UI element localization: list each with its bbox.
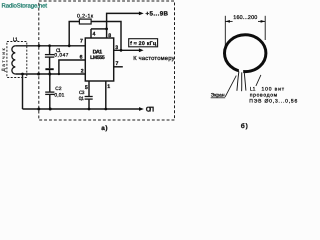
svg-text:С2: С2	[55, 86, 62, 92]
capacitor C2	[49, 74, 51, 92]
svg-text:ПЭВ Ø0,3...0,56: ПЭВ Ø0,3...0,56	[249, 99, 297, 105]
svg-text:8: 8	[108, 33, 111, 39]
coil wire ends	[237, 72, 239, 91]
lower plate bar	[45, 68, 53, 70]
svg-text:RadioStorage.net: RadioStorage.net	[2, 2, 48, 9]
pin 4 lead	[90, 29, 92, 38]
arrow to OP	[139, 107, 144, 111]
svg-text:f ≈ 20 кГц: f ≈ 20 кГц	[130, 41, 157, 47]
capacitor C3	[85, 96, 93, 98]
IC DA1 box	[85, 38, 113, 81]
svg-text:L1: L1	[250, 87, 256, 93]
dimension ticks	[224, 16, 226, 47]
svg-text:0,1: 0,1	[79, 96, 85, 102]
svg-text:7: 7	[116, 61, 119, 67]
svg-text:6: 6	[80, 54, 83, 60]
svg-text:5: 5	[85, 85, 88, 91]
frequency box	[129, 39, 158, 47]
pin 8 lead	[106, 29, 108, 38]
leader to screen	[225, 76, 236, 97]
svg-text:100 вит: 100 вит	[262, 87, 285, 93]
svg-text:LM555: LM555	[90, 55, 105, 61]
svg-text:2: 2	[81, 69, 84, 75]
junction dots	[38, 44, 41, 47]
enclosure dashed border (screen box of device a)	[39, 1, 175, 120]
svg-text:+5...9В: +5...9В	[146, 11, 169, 18]
pin 7 stub right	[114, 66, 123, 68]
sensor dashed box	[7, 42, 27, 78]
ground rail	[23, 108, 140, 110]
notch at ring bottom	[239, 69, 243, 76]
svg-text:7: 7	[80, 39, 83, 45]
svg-text:С3: С3	[79, 90, 85, 96]
svg-text:б): б)	[241, 123, 248, 130]
wire pins 4-8	[91, 28, 107, 30]
wire coil top to pin 7	[15, 45, 85, 47]
leader to L1 note	[256, 75, 261, 86]
svg-text:0,01: 0,01	[54, 93, 64, 99]
svg-text:3: 3	[115, 45, 118, 51]
resistor R1 right lead to pin 3	[91, 22, 121, 51]
pin 1 lead	[105, 81, 107, 109]
svg-text:К частотомеру: К частотомеру	[133, 56, 174, 62]
pin 3 output wire	[114, 49, 140, 51]
+V supply wire	[107, 13, 140, 29]
svg-text:4: 4	[93, 31, 96, 37]
resistor R1 leads	[69, 22, 79, 46]
inductor L1 coil	[12, 46, 15, 74]
svg-text:0,047: 0,047	[54, 53, 68, 59]
search coil ring	[225, 35, 266, 72]
svg-text:0,2-1к: 0,2-1к	[77, 13, 94, 19]
svg-text:160...200: 160...200	[233, 15, 257, 21]
svg-text:а): а)	[101, 125, 107, 132]
svg-text:L1: L1	[13, 37, 18, 43]
dimension arrows	[225, 20, 232, 22]
wire tie pins 6-2	[59, 60, 85, 74]
resistor R1 body	[79, 19, 91, 24]
svg-text:1: 1	[107, 84, 110, 90]
capacitor C1	[49, 46, 51, 54]
arrow to frequency meter	[139, 48, 144, 52]
wire coil bottom to pin 2	[15, 73, 85, 75]
arrow +V	[139, 12, 144, 16]
svg-text:ОП: ОП	[146, 106, 154, 113]
pin 5 lead	[88, 81, 90, 96]
wire ground drop	[22, 74, 24, 109]
